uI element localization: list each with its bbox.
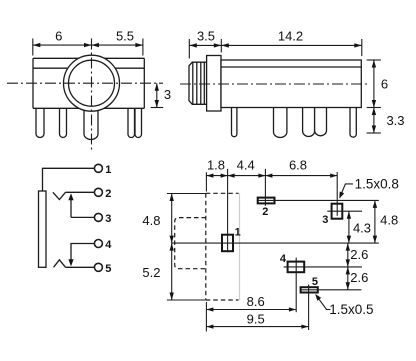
svg-text:2.6: 2.6 bbox=[350, 270, 368, 285]
dimension 6 (front) bbox=[33, 29, 92, 56]
terminal circle 3 bbox=[94, 213, 102, 221]
extension through pad 3 bbox=[336, 172, 338, 216]
side view pin P2 bbox=[274, 108, 287, 138]
terminal circle 4 bbox=[94, 240, 102, 248]
svg-text:14.2: 14.2 bbox=[278, 28, 303, 43]
side view threaded bushing bbox=[189, 62, 207, 104]
wire terminal 1 to bar bbox=[43, 168, 96, 190]
front view pin D bbox=[128, 108, 135, 138]
svg-text:3: 3 bbox=[322, 214, 328, 226]
dimension 9.5 bbox=[206, 311, 308, 328]
dimension 6 (side right) bbox=[367, 60, 389, 108]
svg-text:2: 2 bbox=[105, 188, 111, 200]
terminal circle 2 bbox=[94, 188, 102, 196]
pad 5 wire bbox=[301, 289, 362, 291]
wire contact caret to terminal 5 bbox=[66, 266, 96, 268]
svg-text:6: 6 bbox=[381, 77, 388, 92]
front view barrel inner circle bbox=[69, 60, 115, 106]
front view pin A bbox=[36, 108, 44, 138]
terminal circle 1 bbox=[94, 164, 102, 172]
svg-text:5: 5 bbox=[312, 276, 318, 288]
pad 3 bbox=[332, 204, 343, 219]
layout horizontal centerline bbox=[172, 242, 379, 244]
dimension 4.8 right bbox=[373, 200, 399, 243]
side view body bbox=[221, 60, 361, 108]
dimension 3 (front) bbox=[151, 83, 171, 107]
svg-text:3.3: 3.3 bbox=[386, 113, 404, 128]
terminal circle 5 bbox=[94, 263, 102, 271]
dimension 8.6 bbox=[206, 294, 296, 332]
extension through pad 5 bbox=[308, 285, 310, 331]
wire terminal 3 bbox=[71, 216, 95, 218]
dimension 4.8 left bbox=[142, 194, 205, 244]
extension through pad 1 bbox=[227, 169, 229, 252]
svg-text:2.6: 2.6 bbox=[350, 247, 368, 262]
dimension 3.3 (side right) bbox=[367, 108, 405, 134]
dimension 5.2 left bbox=[142, 243, 205, 300]
svg-text:4.8: 4.8 bbox=[142, 213, 160, 228]
side view horizontal centerline bbox=[180, 83, 370, 85]
dimension 5.5 (front) bbox=[92, 29, 143, 56]
dimension 4.3 bbox=[347, 211, 371, 243]
front view body J1 bbox=[33, 58, 144, 108]
side view pin P1 bbox=[232, 108, 237, 137]
svg-text:8.6: 8.6 bbox=[247, 294, 265, 309]
dimension 6.8 bbox=[265, 158, 337, 178]
svg-text:5.2: 5.2 bbox=[142, 265, 160, 280]
svg-text:4: 4 bbox=[280, 253, 287, 265]
side view nut flange bbox=[207, 56, 221, 112]
dimension 2.6 upper bbox=[346, 243, 369, 267]
svg-text:4.3: 4.3 bbox=[353, 221, 371, 236]
wire contact V to terminal 2 bbox=[66, 191, 96, 193]
svg-text:1: 1 bbox=[235, 226, 241, 238]
side view pin P3b bbox=[315, 108, 327, 136]
side view pin P4 bbox=[350, 108, 356, 138]
side view pin P3a bbox=[303, 108, 315, 137]
pad 4 bbox=[288, 262, 305, 273]
pad 2 bbox=[258, 198, 275, 204]
svg-text:3.5: 3.5 bbox=[197, 28, 215, 43]
tip contact V bbox=[53, 192, 66, 199]
layout dashed body outline bbox=[206, 193, 240, 300]
dimension 4.4 bbox=[228, 158, 266, 178]
dimension 2.6 lower bbox=[346, 267, 369, 290]
svg-text:9.5: 9.5 bbox=[247, 311, 265, 326]
svg-text:1.5x0.5: 1.5x0.5 bbox=[329, 302, 373, 317]
front view horizontal centerline bbox=[7, 82, 163, 84]
pad size callout 1.5x0.5 bbox=[315, 294, 373, 317]
svg-text:1.5x0.8: 1.5x0.8 bbox=[355, 176, 399, 191]
pad size callout 1.5x0.8 bbox=[339, 176, 399, 198]
pad 3 wire bbox=[327, 210, 362, 212]
svg-text:1: 1 bbox=[105, 164, 111, 176]
svg-text:3: 3 bbox=[105, 213, 111, 225]
layout dashed bushing outline bbox=[175, 218, 206, 269]
schematic plug body bar bbox=[39, 191, 47, 267]
dimension 3.5 (side) bbox=[189, 28, 221, 58]
pad 5 bbox=[301, 287, 318, 292]
pad 1 bbox=[222, 235, 233, 252]
svg-text:5: 5 bbox=[105, 263, 111, 275]
ring contact caret bbox=[54, 260, 66, 268]
switch arrow terminal 3 bbox=[68, 193, 73, 217]
front view vertical centerline bbox=[91, 39, 93, 153]
pad 2 wire bbox=[258, 199, 379, 201]
svg-text:4.4: 4.4 bbox=[237, 158, 255, 173]
svg-text:4.8: 4.8 bbox=[380, 213, 398, 228]
front view pin C (center) bbox=[84, 108, 98, 140]
dimension 14.2 (side) bbox=[221, 28, 361, 56]
svg-text:2: 2 bbox=[262, 206, 268, 218]
svg-text:6: 6 bbox=[55, 29, 62, 44]
front view pin B bbox=[60, 108, 67, 138]
svg-text:3: 3 bbox=[164, 87, 171, 102]
extension through pad 4 bbox=[295, 258, 297, 313]
dimension 1.8 bbox=[206, 158, 227, 192]
front view barrel circle bbox=[64, 55, 120, 111]
wire terminal 4 with switch arrow bbox=[68, 244, 95, 267]
extension to pad 2 bbox=[264, 169, 266, 206]
svg-text:4: 4 bbox=[105, 239, 112, 251]
svg-text:5.5: 5.5 bbox=[116, 29, 134, 44]
front view pin E bbox=[135, 108, 142, 138]
svg-text:1.8: 1.8 bbox=[207, 158, 225, 173]
pad 4 wire bbox=[284, 266, 362, 268]
svg-text:6.8: 6.8 bbox=[289, 158, 307, 173]
